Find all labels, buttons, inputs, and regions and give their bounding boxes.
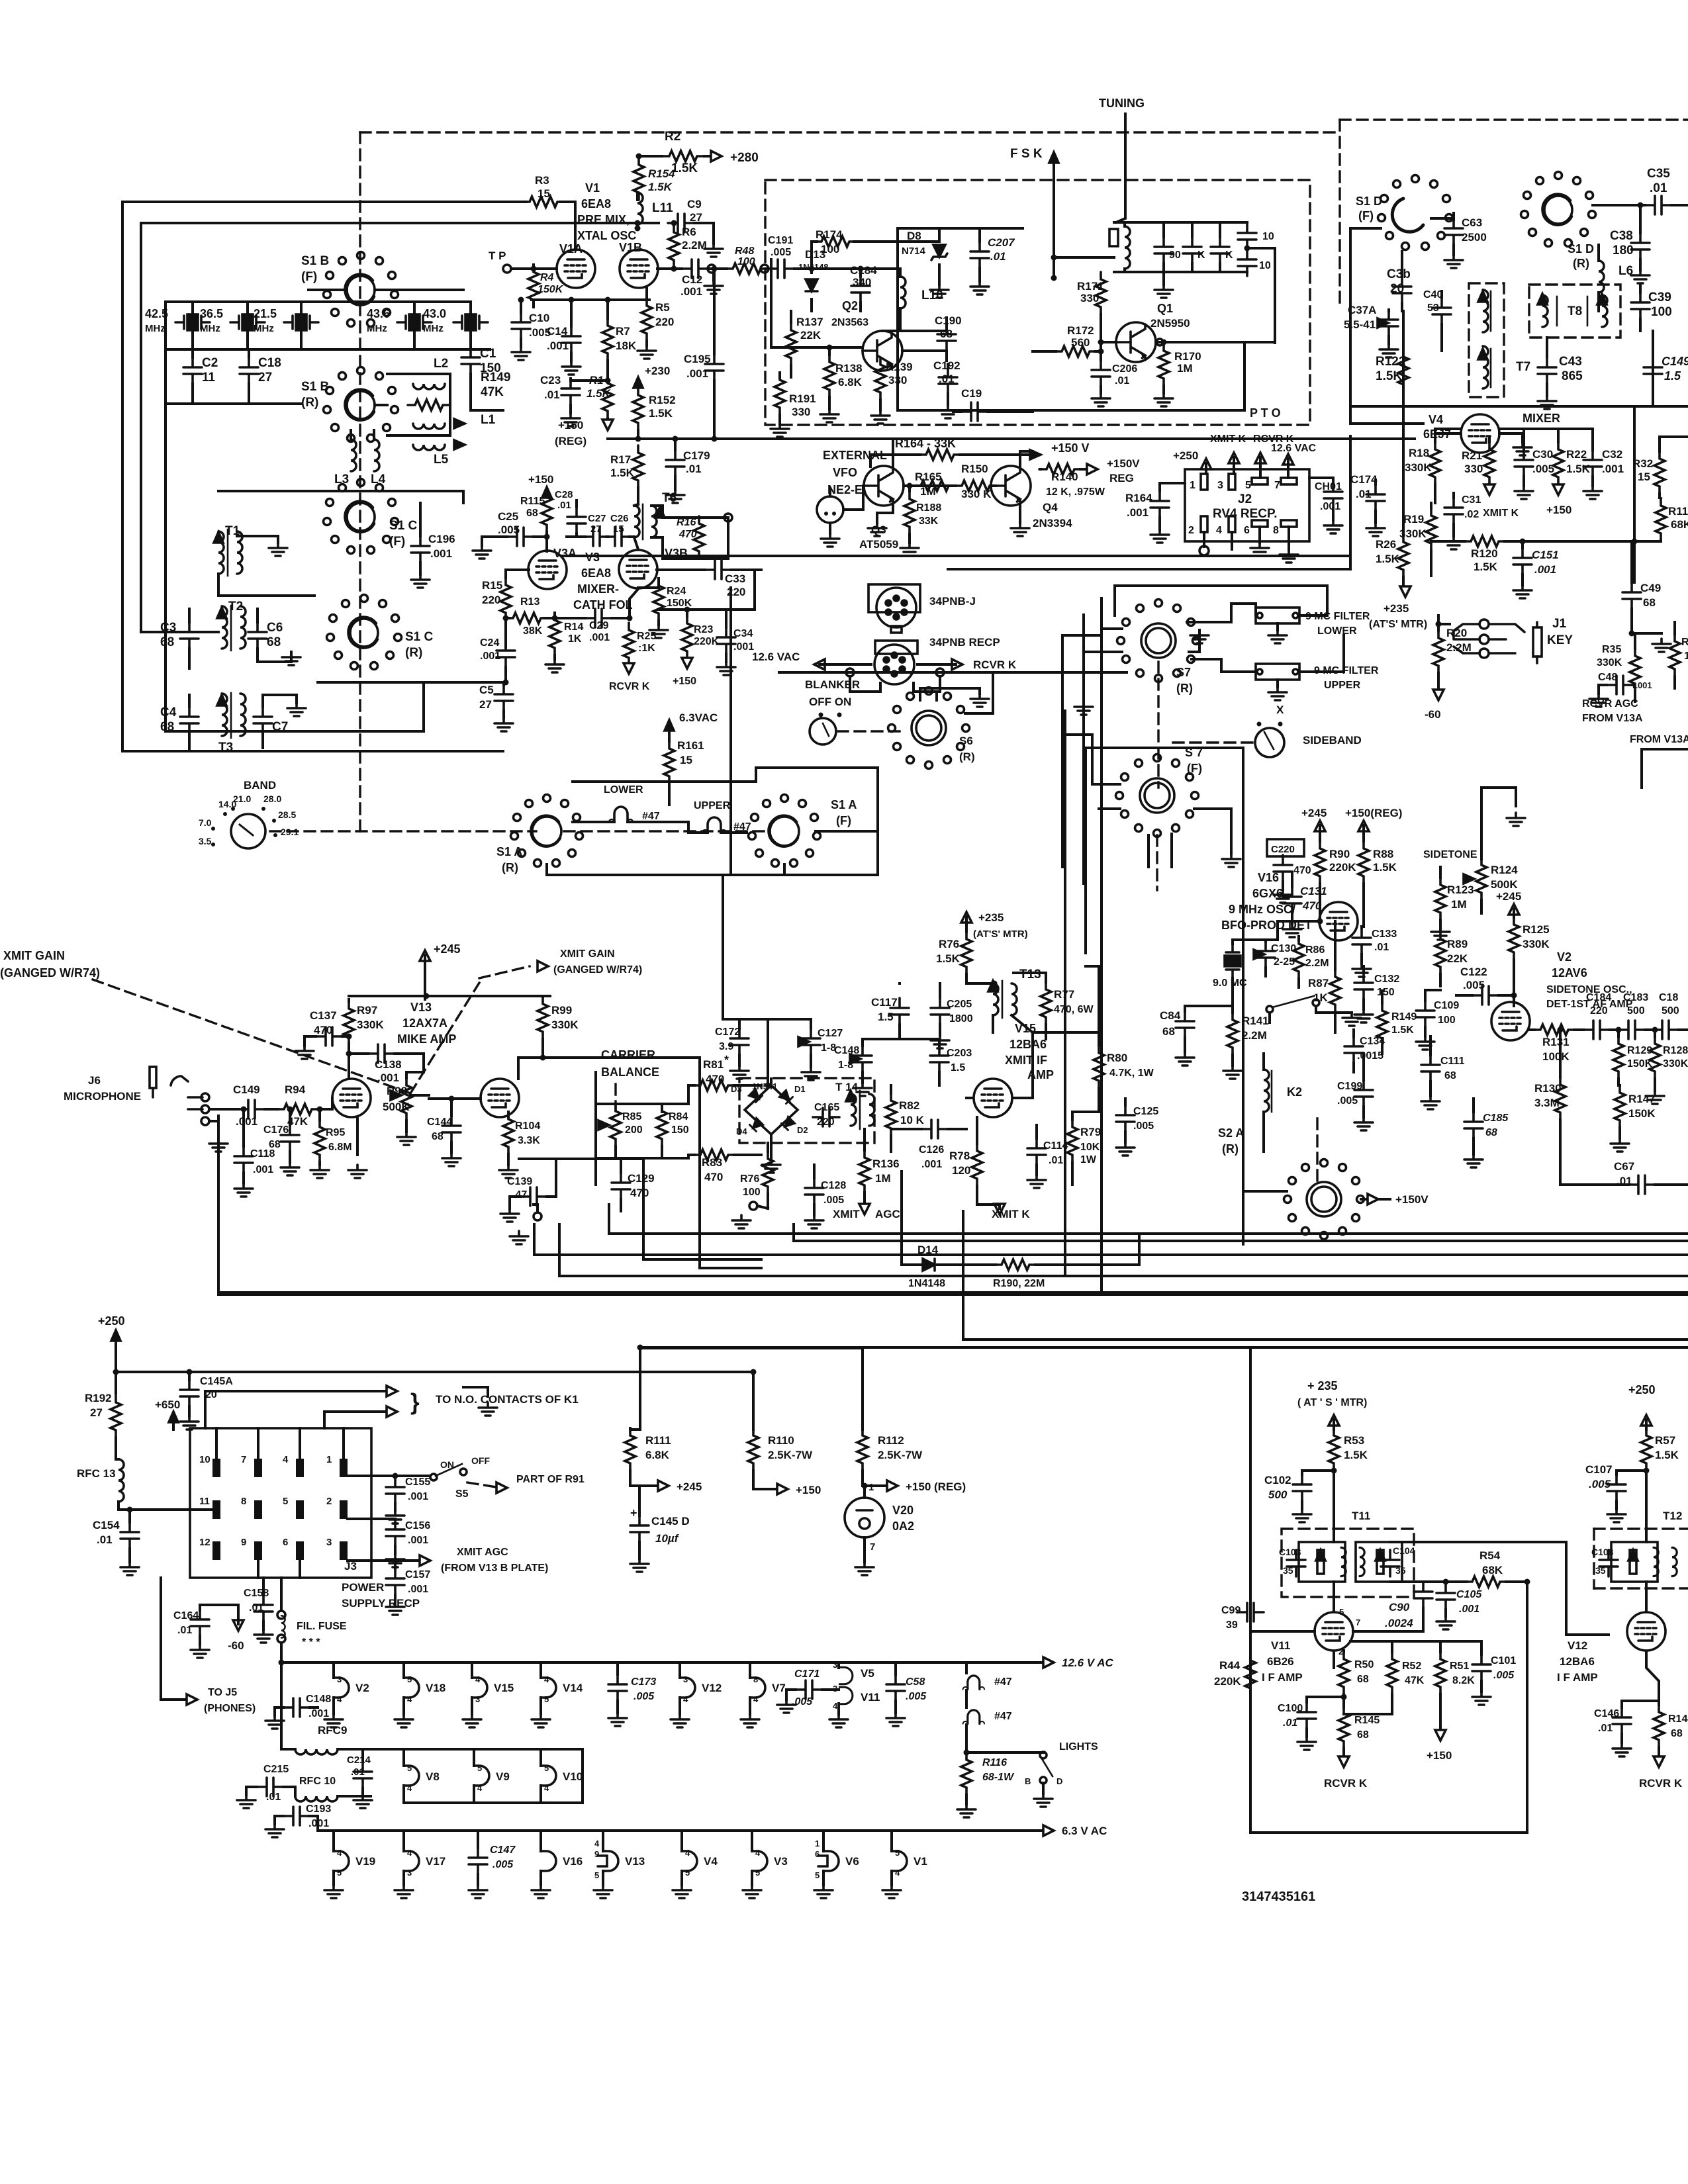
svg-text:100K: 100K bbox=[1542, 1050, 1570, 1063]
wire tuning stem bbox=[1116, 114, 1125, 222]
svg-text:R88: R88 bbox=[1373, 848, 1393, 860]
svg-text:R154: R154 bbox=[648, 167, 675, 180]
capacitor C119 .001 bbox=[238, 1100, 265, 1118]
ground bbox=[1354, 1009, 1373, 1023]
svg-text:PART OF R91: PART OF R91 bbox=[516, 1474, 585, 1485]
svg-text:C207: C207 bbox=[988, 236, 1015, 249]
diode D2 bbox=[781, 1116, 794, 1130]
capacitor C179 .01 bbox=[666, 450, 684, 477]
capacitor C185 68 bbox=[1464, 1112, 1483, 1138]
ground bbox=[209, 1138, 228, 1152]
svg-text:C5: C5 bbox=[479, 684, 494, 696]
svg-text:C103: C103 bbox=[1279, 1547, 1301, 1557]
pentode V1B bbox=[620, 250, 658, 288]
arrow +245 mike bbox=[420, 950, 430, 961]
svg-text:C174: C174 bbox=[1350, 473, 1378, 486]
svg-text:D14: D14 bbox=[917, 1244, 939, 1256]
wire fsk to tank bbox=[1054, 256, 1114, 259]
resistor R6 2.2M bbox=[669, 225, 679, 267]
ground bbox=[1416, 1036, 1434, 1050]
J2 pin 8 bbox=[1281, 520, 1297, 527]
resistor R90 220K bbox=[1315, 841, 1325, 884]
ground bbox=[1583, 486, 1602, 499]
capacitor C107 .005 bbox=[1607, 1475, 1626, 1501]
wire K2 bbox=[1262, 1054, 1265, 1069]
svg-text:C191: C191 bbox=[768, 235, 793, 246]
ground bbox=[1342, 1013, 1361, 1026]
crystal Y3 21.5 MHz bbox=[284, 314, 318, 330]
resistor R164-33K bbox=[919, 449, 961, 460]
resistor R48 100 bbox=[726, 263, 768, 274]
dashed shaft line bbox=[359, 132, 361, 831]
svg-text:12BA6: 12BA6 bbox=[1009, 1038, 1047, 1051]
svg-text:RCVR K: RCVR K bbox=[973, 659, 1017, 671]
wire recp bus bbox=[779, 671, 1127, 674]
capacitor C18 27 bbox=[240, 357, 258, 384]
svg-text:C184: C184 bbox=[1586, 992, 1611, 1003]
svg-text:T13: T13 bbox=[1019, 968, 1041, 981]
svg-text:R137: R137 bbox=[796, 316, 823, 328]
tube heater V19 bbox=[334, 1851, 349, 1871]
capacitor C104 35 bbox=[1381, 1550, 1399, 1576]
svg-text:2: 2 bbox=[326, 1496, 332, 1507]
dashed part of R91 bbox=[467, 1482, 500, 1488]
ground bbox=[1652, 639, 1671, 652]
ground bbox=[1176, 1052, 1194, 1066]
diode D4 bbox=[749, 1118, 763, 1131]
wire V13B cathode run bbox=[519, 1158, 643, 1160]
svg-text:(FROM V13 B PLATE): (FROM V13 B PLATE) bbox=[441, 1563, 548, 1574]
capacitor C147 .005 bbox=[469, 1848, 487, 1874]
svg-text:C48: C48 bbox=[1598, 672, 1617, 683]
svg-text:L6: L6 bbox=[1618, 264, 1633, 278]
svg-text:C157: C157 bbox=[405, 1569, 430, 1580]
svg-text:220: 220 bbox=[1590, 1005, 1608, 1017]
wire Q1 out bbox=[1156, 341, 1275, 343]
ground bbox=[1027, 1175, 1046, 1188]
svg-text:560: 560 bbox=[1071, 336, 1090, 349]
svg-text:.01: .01 bbox=[1374, 942, 1389, 953]
svg-text:330: 330 bbox=[792, 406, 810, 418]
svg-text:R15: R15 bbox=[482, 579, 502, 592]
sideband switch bbox=[1255, 728, 1284, 757]
terminal bbox=[724, 514, 732, 522]
wire box around L coils bbox=[387, 374, 450, 435]
svg-text:R116: R116 bbox=[982, 1757, 1007, 1768]
svg-text:150K: 150K bbox=[538, 284, 564, 295]
svg-text:C133: C133 bbox=[1372, 929, 1397, 940]
svg-text:VFO: VFO bbox=[833, 466, 857, 479]
svg-text:5: 5 bbox=[337, 1868, 342, 1878]
ground bbox=[353, 1795, 372, 1808]
svg-text:SIDEBAND: SIDEBAND bbox=[1303, 734, 1362, 747]
svg-text:C63: C63 bbox=[1462, 216, 1482, 229]
svg-text:C132: C132 bbox=[1374, 974, 1399, 985]
svg-text:150K: 150K bbox=[1628, 1107, 1656, 1120]
svg-text:L1: L1 bbox=[481, 413, 496, 427]
svg-text:R89: R89 bbox=[1447, 938, 1468, 950]
capacitor C182 500 bbox=[1652, 1021, 1679, 1039]
switch wafer S1D(F) bbox=[1392, 199, 1423, 232]
svg-text:7: 7 bbox=[1274, 480, 1280, 491]
switch wafer S1 C|(R) bbox=[348, 617, 378, 648]
ground bbox=[853, 1083, 872, 1096]
svg-text:R122: R122 bbox=[1376, 355, 1405, 369]
svg-text:C4: C4 bbox=[160, 705, 177, 719]
svg-text:T7: T7 bbox=[1516, 360, 1530, 374]
resistor R116 68-1W bbox=[961, 1752, 972, 1795]
svg-text:68: 68 bbox=[526, 508, 538, 519]
resistor R81 470 bbox=[693, 1080, 735, 1091]
wire mixer bus bbox=[1350, 405, 1688, 408]
wire bbox=[331, 1098, 334, 1109]
wire y921 rail bbox=[659, 608, 726, 611]
wire bbox=[716, 267, 727, 270]
ground bbox=[1354, 1117, 1373, 1130]
svg-text:Q4: Q4 bbox=[1043, 501, 1058, 514]
resistor R120 1.5K bbox=[1464, 536, 1506, 547]
svg-text:68: 68 bbox=[1162, 1025, 1175, 1038]
resistor R147 150K bbox=[1615, 1085, 1625, 1128]
tube heater V6 bbox=[823, 1851, 839, 1871]
svg-text:C185: C185 bbox=[1483, 1113, 1509, 1124]
wire V3B out bbox=[657, 569, 705, 571]
svg-text:.001: .001 bbox=[921, 1159, 942, 1170]
svg-text:3.3M: 3.3M bbox=[1534, 1097, 1560, 1109]
capacitor C43 865 bbox=[1538, 357, 1556, 384]
wire pto input bbox=[794, 267, 900, 270]
svg-text:.001: .001 bbox=[547, 340, 569, 352]
svg-text:C126: C126 bbox=[919, 1144, 944, 1156]
svg-text:C43: C43 bbox=[1559, 355, 1582, 369]
svg-text:C195: C195 bbox=[684, 353, 711, 365]
wire FSK vertical bbox=[1053, 168, 1055, 278]
svg-text:68: 68 bbox=[432, 1131, 444, 1142]
arrow +245 bbox=[1315, 821, 1325, 831]
svg-text:1.5: 1.5 bbox=[1664, 369, 1681, 383]
transformer T1 bbox=[218, 531, 224, 574]
svg-text:K: K bbox=[1225, 250, 1233, 261]
svg-text:D: D bbox=[1056, 1776, 1062, 1786]
svg-text:3: 3 bbox=[337, 1674, 342, 1684]
svg-text:XMIT: XMIT bbox=[833, 1208, 860, 1220]
svg-text:(F): (F) bbox=[389, 535, 405, 549]
capacitor C48 Loo1 bbox=[1607, 676, 1633, 694]
ground bbox=[386, 1602, 404, 1615]
svg-text:R7: R7 bbox=[616, 325, 630, 338]
svg-text:1.5K: 1.5K bbox=[1566, 463, 1591, 475]
wire bbox=[630, 535, 634, 538]
capacitor C203 1.5 bbox=[930, 1046, 949, 1072]
svg-text:2N3563: 2N3563 bbox=[831, 317, 868, 328]
resistor R150 330K bbox=[955, 480, 997, 491]
svg-text:.001: .001 bbox=[377, 1071, 399, 1084]
wire V1B out bbox=[657, 267, 682, 270]
svg-text:12.6 VAC: 12.6 VAC bbox=[752, 651, 800, 663]
wire pin2 row bbox=[348, 1518, 395, 1520]
capacitor C118 .001 bbox=[234, 1146, 253, 1173]
svg-text:C165: C165 bbox=[814, 1102, 839, 1113]
svg-text:C171: C171 bbox=[794, 1668, 820, 1680]
svg-text:MIXER: MIXER bbox=[1523, 412, 1560, 425]
capacitor C165 220 bbox=[813, 1108, 839, 1126]
ground bbox=[931, 1035, 949, 1048]
svg-text:L5: L5 bbox=[434, 453, 449, 467]
resistor R13 38K bbox=[506, 613, 548, 623]
svg-text:100: 100 bbox=[1684, 651, 1688, 662]
wire FSK vertical bbox=[1053, 168, 1055, 257]
ground bbox=[265, 1715, 284, 1729]
svg-text:1.5K: 1.5K bbox=[1376, 369, 1402, 383]
svg-text:L2: L2 bbox=[434, 357, 448, 371]
wire bbox=[165, 402, 301, 405]
enclosure lines bbox=[1061, 635, 1064, 867]
svg-text:R125: R125 bbox=[1523, 923, 1550, 936]
svg-text:500K: 500K bbox=[383, 1101, 410, 1113]
wire S1A(R) bbox=[545, 864, 548, 875]
wire row2 bottom bbox=[404, 1749, 583, 1803]
svg-text:R20: R20 bbox=[1446, 627, 1467, 639]
resistor R154 1.5K bbox=[633, 158, 644, 200]
capacitor C207 .01 bbox=[970, 242, 989, 268]
capacitor C205 1800 bbox=[931, 998, 949, 1024]
svg-text:R48: R48 bbox=[735, 246, 754, 257]
wire bus 2036 bbox=[640, 1346, 1688, 1349]
svg-text:C134: C134 bbox=[1360, 1036, 1385, 1047]
svg-text:D2: D2 bbox=[797, 1125, 808, 1135]
svg-text:(GANGED W/R74): (GANGED W/R74) bbox=[553, 964, 642, 976]
svg-text:53: 53 bbox=[1427, 302, 1439, 314]
svg-text:10: 10 bbox=[1259, 260, 1271, 271]
resistor R129 150K bbox=[1613, 1036, 1624, 1079]
diode D3 bbox=[749, 1089, 762, 1102]
capacitor C145D 10uf bbox=[630, 1516, 649, 1542]
svg-text:35: 35 bbox=[1395, 1565, 1406, 1576]
svg-text:2.2M: 2.2M bbox=[682, 239, 707, 251]
svg-text:6EA8: 6EA8 bbox=[581, 197, 611, 210]
wire bbox=[850, 676, 880, 692]
svg-text:R13: R13 bbox=[520, 596, 539, 608]
J3 pin 3 bbox=[340, 1541, 348, 1560]
svg-text:1M: 1M bbox=[920, 485, 936, 498]
pentode V11 6B26 bbox=[1315, 1612, 1353, 1651]
svg-text:C67: C67 bbox=[1614, 1160, 1634, 1173]
svg-text:Q3: Q3 bbox=[871, 523, 886, 536]
svg-text:LIGHTS: LIGHTS bbox=[1059, 1741, 1098, 1752]
ground bbox=[1538, 396, 1556, 409]
svg-text:R150: R150 bbox=[961, 463, 988, 475]
wire bbox=[1033, 342, 1244, 410]
svg-text:R5: R5 bbox=[655, 301, 670, 314]
svg-text:.01: .01 bbox=[351, 1766, 365, 1778]
svg-text:200: 200 bbox=[625, 1124, 643, 1136]
capacitor C12 .001 bbox=[682, 259, 708, 278]
svg-text:+150 V: +150 V bbox=[1051, 441, 1090, 455]
svg-text:21.0: 21.0 bbox=[233, 794, 251, 804]
capacitor C215 .01 bbox=[257, 1778, 283, 1796]
svg-text:4: 4 bbox=[1216, 525, 1222, 536]
lamp UPPER #47 bbox=[702, 817, 726, 833]
ground tank bbox=[1154, 285, 1173, 298]
wire filter outs bbox=[1299, 586, 1327, 615]
svg-text:(GANGED W/R74): (GANGED W/R74) bbox=[0, 966, 100, 979]
svg-text:1.5: 1.5 bbox=[878, 1011, 894, 1023]
switch wafer S7(R) bbox=[1141, 623, 1176, 658]
svg-text:R140: R140 bbox=[1051, 471, 1078, 483]
ground bbox=[281, 1162, 299, 1175]
svg-text:12: 12 bbox=[199, 1537, 211, 1548]
ground bbox=[730, 1066, 749, 1079]
terminal odot bbox=[708, 265, 716, 273]
svg-text:C128: C128 bbox=[821, 1180, 846, 1191]
resistor R119 68K bbox=[1656, 498, 1666, 541]
svg-text:.0024: .0024 bbox=[1385, 1617, 1413, 1629]
svg-text:C14: C14 bbox=[547, 325, 568, 338]
ground bbox=[442, 1153, 461, 1166]
arrow +150 v3 bbox=[682, 658, 692, 668]
ground bbox=[608, 1713, 627, 1726]
transformer T8 coils bbox=[1542, 295, 1548, 327]
resistor R125 330K bbox=[1509, 917, 1519, 960]
resistor R17 1.5K bbox=[633, 445, 643, 488]
svg-text:#47: #47 bbox=[994, 1676, 1012, 1688]
triode V13A bbox=[332, 1079, 371, 1117]
svg-text:42.5: 42.5 bbox=[145, 307, 168, 320]
svg-text:.005: .005 bbox=[1337, 1095, 1358, 1107]
triode V1A bbox=[557, 250, 595, 288]
svg-text:XMIT K: XMIT K bbox=[1483, 508, 1519, 519]
triode V2 12AV6 bbox=[1491, 1002, 1530, 1040]
svg-text:15: 15 bbox=[680, 754, 692, 766]
svg-text:.01: .01 bbox=[1115, 375, 1129, 387]
resistor R115 68 bbox=[541, 490, 552, 532]
svg-text:68K: 68K bbox=[1671, 518, 1688, 531]
wire T6 bbox=[634, 504, 638, 506]
resistor R32 15 bbox=[1654, 451, 1665, 494]
ground bbox=[295, 1046, 314, 1059]
svg-text:R164: R164 bbox=[1125, 492, 1152, 504]
svg-text:TUNING: TUNING bbox=[1099, 97, 1145, 110]
ground bbox=[473, 545, 491, 559]
svg-text:}: } bbox=[410, 1389, 420, 1415]
svg-text:S1 C: S1 C bbox=[389, 519, 418, 533]
svg-text:V3B: V3B bbox=[665, 547, 688, 560]
arrow +150V REG bbox=[1087, 464, 1098, 475]
resistor R80 4.7K bbox=[1094, 1046, 1104, 1088]
capacitor C19 bbox=[961, 402, 988, 421]
svg-text:R22: R22 bbox=[1566, 448, 1587, 461]
svg-text:R83: R83 bbox=[702, 1156, 722, 1169]
J3 pin 1 bbox=[340, 1459, 348, 1477]
wire bus 1896 bbox=[534, 1253, 1688, 1256]
capacitor C101 .005 bbox=[1472, 1655, 1491, 1681]
svg-text:C19: C19 bbox=[961, 387, 982, 400]
svg-text:+245: +245 bbox=[1496, 890, 1521, 903]
svg-text:V1: V1 bbox=[585, 181, 600, 195]
wire R111 net bbox=[639, 1347, 641, 1430]
svg-text:R138: R138 bbox=[835, 362, 863, 375]
svg-text:1N4148: 1N4148 bbox=[908, 1278, 945, 1289]
svg-text:100: 100 bbox=[1438, 1015, 1456, 1026]
svg-text:XTAL OSC: XTAL OSC bbox=[577, 229, 636, 242]
wire S1D(F) down bbox=[1350, 228, 1381, 406]
wire bbox=[1499, 433, 1523, 442]
wire bbox=[843, 486, 863, 510]
wire bbox=[544, 617, 585, 619]
svg-text:V11: V11 bbox=[861, 1691, 880, 1704]
switch wafer S1A(R) bbox=[531, 816, 561, 846]
svg-text:C196: C196 bbox=[428, 533, 455, 545]
capacitor C29 .001 bbox=[585, 609, 612, 627]
resistor R87 1K bbox=[1330, 970, 1340, 1012]
svg-text:RFC 13: RFC 13 bbox=[77, 1467, 116, 1480]
svg-text:.01: .01 bbox=[557, 500, 571, 511]
resistor R131 100K bbox=[1533, 1024, 1575, 1035]
capacitor C190 68 bbox=[937, 324, 956, 351]
svg-text:.005: .005 bbox=[823, 1195, 844, 1206]
svg-text:T8: T8 bbox=[1568, 304, 1582, 318]
crystal Y4 43.6 MHz bbox=[397, 314, 432, 330]
svg-text:.01: .01 bbox=[177, 1625, 192, 1636]
capacitor C109 100 bbox=[1416, 1001, 1434, 1027]
svg-text:R4: R4 bbox=[540, 272, 554, 283]
svg-text:.001: .001 bbox=[1127, 506, 1149, 519]
svg-text:1K: 1K bbox=[1313, 991, 1328, 1004]
capacitor C6 68 bbox=[248, 622, 267, 649]
svg-text:* * *: * * * bbox=[302, 1637, 320, 1648]
svg-text:R145: R145 bbox=[1354, 1715, 1380, 1726]
wire plate rail bbox=[349, 995, 550, 997]
wire bbox=[594, 1072, 597, 1185]
ground bbox=[562, 361, 581, 375]
tube heater V14 bbox=[541, 1678, 556, 1698]
capacitor C192 .01 bbox=[939, 367, 957, 394]
svg-text:C145 D: C145 D bbox=[651, 1515, 690, 1527]
resistor R174 100 bbox=[814, 236, 857, 247]
ground bbox=[1515, 486, 1533, 499]
svg-text:(F): (F) bbox=[1187, 762, 1202, 775]
svg-text:340: 340 bbox=[853, 276, 871, 289]
svg-text:6: 6 bbox=[815, 1849, 820, 1859]
ground bbox=[1074, 702, 1093, 715]
wire bbox=[118, 1508, 216, 1511]
svg-text:C145A: C145A bbox=[200, 1376, 233, 1387]
resistor R123 1M bbox=[1435, 878, 1446, 920]
capacitor C4 68 bbox=[180, 707, 199, 733]
svg-text:330: 330 bbox=[1464, 463, 1483, 475]
svg-text:V4: V4 bbox=[1429, 413, 1443, 426]
svg-text:68: 68 bbox=[267, 635, 281, 649]
wire TP to V1A bbox=[511, 267, 557, 270]
dashed gang line bbox=[93, 979, 410, 1093]
svg-text:R111: R111 bbox=[645, 1434, 671, 1447]
lamp #47 a bbox=[963, 1676, 984, 1690]
svg-text:L10: L10 bbox=[921, 289, 943, 302]
tube heater V4 bbox=[682, 1851, 697, 1871]
capacitor C108 35 bbox=[1599, 1550, 1618, 1576]
wire +150V bbox=[1361, 1198, 1390, 1201]
transistor Q3 AT5059 bbox=[864, 466, 904, 506]
ground bbox=[704, 244, 723, 257]
svg-text:.001: .001 bbox=[480, 651, 500, 662]
svg-text:R35: R35 bbox=[1602, 644, 1621, 655]
svg-text:R192: R192 bbox=[85, 1392, 112, 1404]
switch wafer S1 C|(F) bbox=[345, 502, 375, 532]
34PNB RECP connector bbox=[875, 641, 917, 654]
svg-text:C33: C33 bbox=[725, 572, 745, 585]
svg-text:C184: C184 bbox=[850, 264, 877, 277]
svg-text:MHz: MHz bbox=[200, 323, 220, 334]
